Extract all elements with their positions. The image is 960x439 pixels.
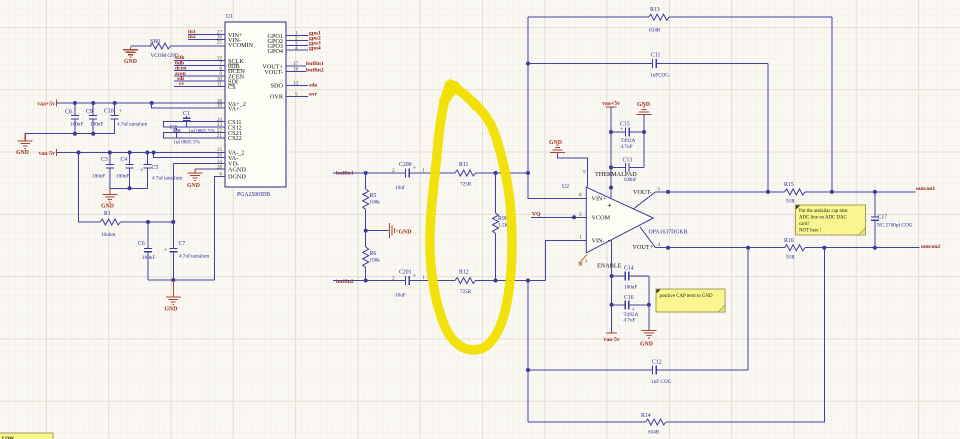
- op-amp pin numbers: [579, 170, 661, 265]
- wire VOUT- diagonal stub: [634, 192, 656, 209]
- U1 left pin names: [228, 32, 254, 180]
- op-amp pin names: [592, 196, 611, 245]
- wire VIN+ into pin 8: [528, 173, 586, 199]
- svg-text:R14: R14: [641, 413, 651, 419]
- svg-text:C200: C200: [399, 162, 412, 168]
- op-amp internal polarity marks: [608, 204, 612, 241]
- wire C11 right vertical: [767, 64, 769, 192]
- wire V+ vertical: [610, 107, 612, 199]
- svg-text:VA+: VA+: [228, 106, 240, 113]
- svg-text:VIN-: VIN-: [592, 238, 605, 245]
- svg-text:C2: C2: [170, 125, 177, 131]
- U1 left pin numbers: [217, 30, 223, 178]
- resistor R15: [784, 182, 805, 205]
- svg-text:8: 8: [579, 193, 582, 199]
- svg-text:SDO: SDO: [271, 83, 284, 90]
- wire buffin2 line: [333, 280, 406, 282]
- svg-text:R13: R13: [650, 7, 660, 13]
- wire buffin2 pin16: [286, 70, 306, 72]
- resistor R12: [455, 270, 476, 296]
- thermal pad ground wire: [557, 153, 587, 188]
- wire VIN- vertical to R14: [527, 370, 529, 422]
- IC U1 body: [225, 14, 286, 198]
- svg-text:OPA1637DGKR: OPA1637DGKR: [649, 230, 688, 236]
- svg-text:1nFCOG: 1nFCOG: [650, 73, 669, 79]
- svg-text:GND: GND: [101, 204, 114, 210]
- ground (thermal pad): [549, 140, 565, 153]
- svg-text:GND: GND: [165, 307, 178, 313]
- svg-text:C1: C1: [183, 111, 190, 117]
- svg-text:100k: 100k: [370, 200, 381, 206]
- svg-text:100nF: 100nF: [116, 174, 129, 180]
- capacitor C12: [651, 360, 672, 386]
- sticky note: bottom-left corner (clipped): [0, 433, 53, 439]
- svg-text:positive CAP term to GND: positive CAP term to GND: [660, 294, 714, 299]
- svg-text:U1: U1: [226, 14, 233, 20]
- svg-text:4.7uf tantalum: 4.7uf tantalum: [179, 253, 209, 260]
- node dots on +5v rail: [73, 101, 154, 105]
- capacitor C9: [86, 103, 103, 134]
- svg-text:R6: R6: [370, 251, 377, 257]
- wire VOUT+ diagonal stub: [640, 227, 656, 248]
- svg-text:VOUT-: VOUT-: [633, 189, 652, 196]
- svg-text:CS: CS: [228, 84, 236, 91]
- svg-text:sdo: sdo: [309, 82, 317, 88]
- capacitor C6: [138, 222, 155, 280]
- svg-text:C12: C12: [652, 360, 662, 366]
- wire VQ to VCOM pin 2: [531, 216, 586, 218]
- wire gpo3: [286, 44, 308, 46]
- svg-text:+: +: [413, 274, 416, 280]
- ferrite SB0: [150, 43, 171, 49]
- svg-text:VOUT-: VOUT-: [264, 69, 283, 76]
- svg-text:VCOM: VCOM: [592, 214, 611, 221]
- wire feedback vertical left: [527, 17, 529, 173]
- ground (below C16): [640, 331, 656, 348]
- svg-text:VIN+: VIN+: [592, 196, 607, 203]
- svg-text:buffin1: buffin1: [306, 61, 324, 67]
- capacitor C10: [104, 103, 147, 134]
- wire buffin1 line: [333, 172, 406, 174]
- svg-text:100nF: 100nF: [70, 122, 83, 128]
- svg-text:10uF: 10uF: [395, 293, 406, 299]
- svg-text:4.7uF: 4.7uF: [621, 144, 633, 150]
- wire buffin1 pin17: [286, 65, 306, 67]
- svg-text:CS22: CS22: [228, 135, 242, 142]
- capacitor C7: [164, 222, 209, 280]
- svg-text:91R: 91R: [786, 255, 795, 261]
- wire C200 to R11: [409, 172, 455, 174]
- svg-text:100nF: 100nF: [90, 122, 103, 128]
- wire VOUT+ line: [656, 247, 920, 249]
- highlighter ellipse annotation: [430, 84, 512, 350]
- svg-text:C10: C10: [104, 109, 114, 115]
- ground below C3 rail: [101, 188, 117, 209]
- svg-text:R5: R5: [370, 193, 377, 199]
- svg-text:+: +: [620, 127, 623, 133]
- capacitor C14: [612, 266, 649, 291]
- ground VCOM GND: [123, 47, 138, 65]
- svg-text:R12: R12: [459, 270, 469, 276]
- svg-text:GPO4: GPO4: [268, 48, 283, 55]
- wire VIN- into pin 1: [528, 241, 586, 372]
- svg-text:R15: R15: [784, 182, 794, 188]
- svg-text:C16: C16: [624, 295, 634, 301]
- capacitor C5: [140, 153, 182, 189]
- power port vaa+5v (above C15): [602, 101, 620, 107]
- svg-text:1uf 0805 5%: 1uf 0805 5%: [173, 139, 200, 146]
- svg-text:VQ: VQ: [532, 212, 541, 218]
- capacitor C17: [871, 190, 913, 248]
- svg-text:cs: cs: [179, 81, 185, 87]
- svg-text:634R: 634R: [649, 28, 661, 34]
- wire zcen pin9: [174, 75, 225, 77]
- svg-text:100k: 100k: [370, 258, 381, 264]
- wire VD- vertical down to C7: [172, 164, 174, 222]
- op-amp U2 triangle: [562, 184, 688, 253]
- svg-text:4.7uf tantalum: 4.7uf tantalum: [117, 121, 147, 128]
- svg-text:C9: C9: [86, 109, 93, 115]
- capacitor C4: [116, 153, 134, 189]
- svg-text:10uf: 10uf: [395, 184, 405, 191]
- svg-text:vaa+5v: vaa+5v: [37, 102, 55, 108]
- capacitor C11: [528, 53, 768, 79]
- wire cs pin11: [174, 85, 225, 87]
- svg-text:GND: GND: [124, 59, 137, 65]
- svg-text:2: 2: [392, 168, 395, 174]
- wire pin27 in1: [188, 34, 225, 36]
- wire jog to pin19: [152, 103, 225, 108]
- svg-text:gpo4: gpo4: [309, 45, 321, 51]
- svg-text:3: 3: [585, 259, 588, 265]
- svg-text:vaa-5v: vaa-5v: [603, 337, 620, 343]
- capacitor C15: [611, 122, 644, 151]
- svg-text:C14: C14: [624, 266, 634, 272]
- svg-text:2: 2: [392, 276, 395, 282]
- svg-text:+: +: [140, 168, 143, 174]
- svg-text:R11: R11: [459, 162, 469, 168]
- wire R11 to node: [476, 172, 529, 174]
- svg-text:100nF: 100nF: [624, 285, 637, 291]
- svg-text:4.7uF: 4.7uF: [624, 318, 636, 324]
- svg-text:1: 1: [579, 235, 582, 241]
- svg-text:91R: 91R: [786, 199, 795, 205]
- svg-text:100nF: 100nF: [92, 174, 105, 180]
- svg-text:C201: C201: [399, 270, 412, 276]
- wire sclk pin12: [174, 59, 225, 61]
- svg-text:GND: GND: [549, 140, 562, 146]
- svg-text:PGA2500IDB: PGA2500IDB: [237, 192, 270, 198]
- ground at pin28: [187, 169, 203, 189]
- svg-text:25: 25: [217, 40, 223, 46]
- wire VOUT- line: [656, 191, 916, 193]
- svg-text:ovr: ovr: [309, 92, 318, 98]
- ground (right of C15): [637, 102, 652, 115]
- svg-text:U2: U2: [562, 184, 569, 190]
- capacitor C201: [392, 270, 425, 299]
- svg-text:C4: C4: [121, 157, 128, 163]
- svg-text:SB0: SB0: [150, 39, 160, 45]
- svg-text:1nF COG: 1nF COG: [651, 379, 672, 385]
- resistor R16: [784, 238, 805, 261]
- wire VCOM to pin25: [131, 45, 226, 47]
- wire GND vertical to C13: [643, 115, 645, 168]
- svg-text:2: 2: [579, 211, 582, 217]
- wire C3-C5 bottom rail: [110, 187, 148, 189]
- svg-text:634R: 634R: [648, 430, 660, 436]
- svg-text:card!: card!: [799, 222, 809, 227]
- power port vaa-5v (bottom): [603, 333, 620, 343]
- wire 0db pin7: [174, 65, 225, 67]
- svg-text:NC 2700pf COG: NC 2700pf COG: [877, 222, 913, 229]
- resistor R14: [528, 248, 824, 436]
- svg-text:1uf 0805 5%: 1uf 0805 5%: [188, 128, 215, 135]
- ground GND (left of C8): [16, 134, 33, 156]
- enable pin NC tick: [579, 255, 588, 267]
- wire sdi pin10: [174, 80, 225, 82]
- wire R12 to node: [476, 280, 546, 282]
- wire vaa-5v rail to pin15: [57, 152, 226, 154]
- wire VD- pin14: [173, 163, 225, 165]
- sticky note: antialias cap: [796, 205, 866, 235]
- wire C12 bottom line: [528, 248, 748, 370]
- svg-text:VOUT+: VOUT+: [633, 244, 654, 251]
- wire to mid ground: [366, 230, 389, 232]
- power port vaa-5v (left): [39, 149, 57, 157]
- wire dcen pin8: [174, 70, 225, 72]
- wire C14/C16 right vertical to GND: [648, 276, 650, 331]
- resistor R11: [455, 162, 476, 188]
- svg-text:ADC line on ADC DAC: ADC line on ADC DAC: [799, 216, 847, 221]
- svg-text:Put the antialias cap near: Put the antialias cap near: [799, 209, 848, 214]
- wire C8-C10 bottom rail: [25, 133, 115, 135]
- svg-text:ENABLE: ENABLE: [597, 263, 622, 270]
- svg-text:vaa+5v: vaa+5v: [602, 101, 620, 107]
- svg-text:4: 4: [658, 242, 661, 248]
- svg-text:100nF: 100nF: [624, 177, 637, 183]
- ground below C7 rail: [165, 280, 181, 313]
- svg-text:R16: R16: [784, 238, 794, 244]
- svg-text:C13: C13: [623, 158, 633, 164]
- svg-text:R99: R99: [498, 216, 508, 222]
- resistor R6: [363, 231, 381, 281]
- svg-text:GND: GND: [16, 150, 29, 156]
- wire bottom rail C6/C7: [148, 279, 215, 281]
- svg-text:NOT here !: NOT here !: [799, 229, 822, 234]
- capacitor C16: [612, 295, 649, 324]
- svg-text:VCOMIN: VCOMIN: [228, 42, 254, 49]
- svg-text:C17: C17: [878, 215, 888, 221]
- capacitor C200: [392, 162, 425, 191]
- highlighter double-stroke top: [444, 86, 455, 101]
- svg-text:buffin2: buffin2: [306, 68, 324, 74]
- wire gpo4: [286, 49, 308, 51]
- svg-text:C6: C6: [138, 241, 145, 247]
- resistor R13: [528, 7, 832, 34]
- svg-text:R1: R1: [104, 211, 111, 217]
- resistor R5: [363, 173, 381, 231]
- svg-text:9: 9: [583, 170, 586, 176]
- wire ovr pin5: [286, 95, 308, 97]
- svg-text:C5: C5: [152, 165, 159, 171]
- svg-text:10ohm: 10ohm: [101, 232, 115, 238]
- svg-text:725R: 725R: [460, 182, 472, 188]
- svg-text:+: +: [413, 166, 416, 172]
- wire R13 right vertical: [831, 17, 833, 192]
- wire gpo1: [286, 35, 308, 37]
- svg-text:OVR: OVR: [270, 94, 284, 101]
- wire sdo pin13: [286, 84, 308, 86]
- U1 right pin names: [262, 33, 284, 101]
- svg-text:outcon2: outcon2: [921, 244, 940, 250]
- svg-text:C8: C8: [65, 110, 72, 116]
- svg-text:GND: GND: [187, 183, 200, 189]
- svg-text:GND: GND: [399, 230, 412, 236]
- svg-text:4.7uf tantalum: 4.7uf tantalum: [152, 175, 182, 182]
- wire DGND pin6 down: [215, 176, 225, 280]
- svg-text:vaa-5v: vaa-5v: [39, 151, 56, 157]
- capacitor C2 loop (CS21/CS22): [164, 125, 225, 146]
- svg-text:outcon1: outcon1: [916, 186, 935, 192]
- svg-text:GND: GND: [640, 342, 653, 348]
- svg-text:C3: C3: [101, 157, 108, 163]
- svg-text:C11: C11: [651, 53, 661, 59]
- svg-text:DGND: DGND: [228, 173, 246, 180]
- wire vaa+5v rail to pin18: [57, 102, 226, 104]
- svg-text:+: +: [119, 109, 122, 115]
- svg-text:+: +: [164, 248, 167, 254]
- wire gpo2: [286, 39, 308, 41]
- wire V- vertical below triangle: [611, 240, 613, 333]
- svg-text:725R: 725R: [460, 289, 472, 295]
- svg-text:buffin2: buffin2: [336, 279, 354, 285]
- svg-text:C7: C7: [179, 241, 186, 247]
- ground mid (rotated): [390, 223, 412, 238]
- capacitor C8: [65, 103, 83, 134]
- capacitor C13: [611, 158, 644, 184]
- wire jog to pin20: [154, 153, 225, 158]
- node dots on -5v rail: [77, 151, 156, 155]
- svg-text:100nF: 100nF: [142, 255, 155, 261]
- power port vaa+5v (upper left): [37, 100, 56, 108]
- resistor R1: [79, 153, 174, 239]
- U1 right pin numbers: [293, 31, 299, 98]
- svg-text:AGND: AGND: [228, 166, 246, 173]
- capacitor C3: [92, 153, 114, 189]
- capacitor C1 loop (CS11/CS12): [164, 111, 225, 135]
- sticky note: positive CAP term: [656, 289, 725, 312]
- wire C201 to R12: [409, 280, 455, 282]
- wire AGND pin28: [195, 168, 225, 170]
- svg-text:in2: in2: [188, 34, 196, 40]
- wire pin26 in2: [188, 39, 225, 41]
- resistor R99: [493, 173, 509, 281]
